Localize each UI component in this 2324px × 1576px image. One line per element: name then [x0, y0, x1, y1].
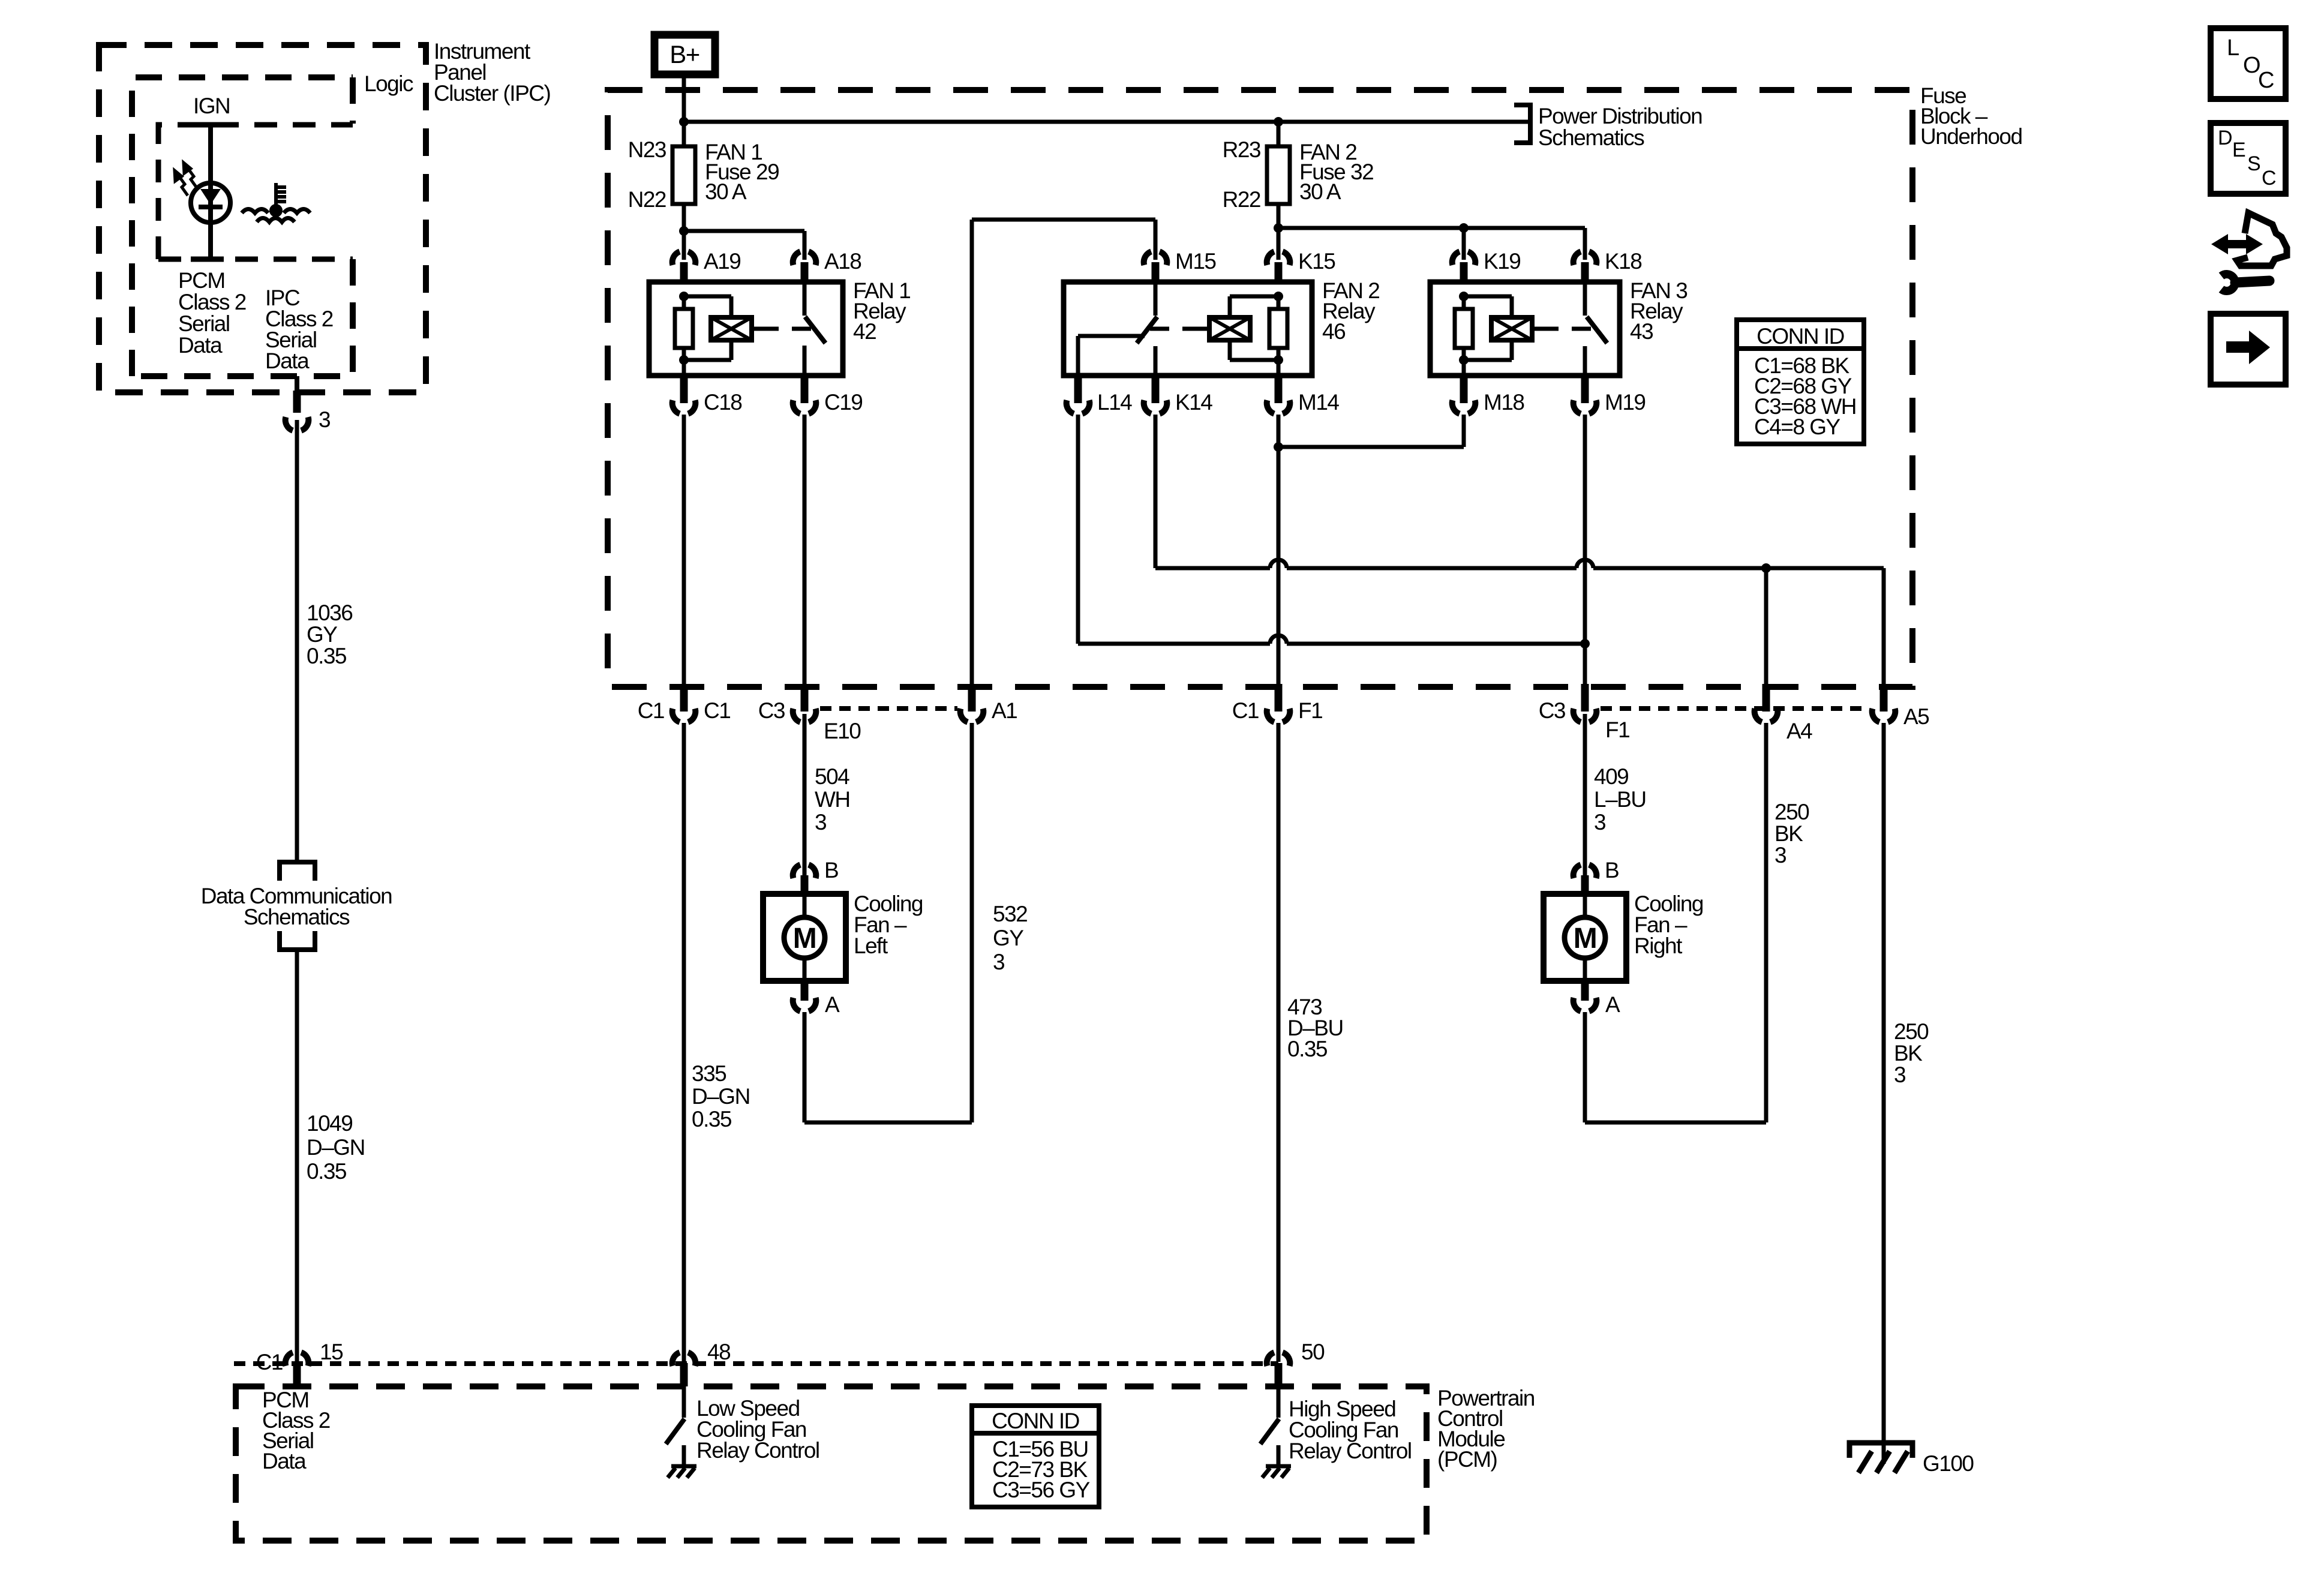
- svg-text:46: 46: [1322, 319, 1345, 344]
- connector pin A4: [1755, 709, 1778, 722]
- svg-text:M: M: [793, 923, 816, 954]
- pin stubs: [680, 262, 688, 282]
- wire 473 D-BU 0.35: [1277, 723, 1281, 1362]
- PCM connector dotted line: [234, 1361, 1278, 1366]
- wire IGN to serial data logic: [208, 125, 213, 259]
- svg-text:Underhood: Underhood: [1920, 124, 2022, 149]
- svg-text:CONN ID: CONN ID: [1756, 324, 1844, 349]
- pin stubs M18 M19: [1460, 376, 1468, 403]
- svg-text:1036: 1036: [307, 601, 352, 625]
- svg-text:Relay Control: Relay Control: [696, 1438, 819, 1463]
- connector stub: [968, 684, 976, 712]
- wire: [682, 122, 686, 146]
- svg-text:Cluster (IPC): Cluster (IPC): [434, 81, 550, 106]
- connector pin 15 (C1): [286, 1352, 309, 1366]
- svg-text:N22: N22: [628, 187, 666, 212]
- connector pin 48: [672, 1352, 696, 1366]
- svg-text:A4: A4: [1786, 719, 1812, 743]
- IPC logic inner dashed box (indicator symbols): [158, 125, 353, 259]
- wire 335 D-GN 0.35: [682, 723, 686, 1362]
- svg-text:BK: BK: [1894, 1041, 1923, 1065]
- wire fan right A to A4: [1583, 1012, 1587, 1122]
- svg-text:M14: M14: [1298, 390, 1339, 415]
- connector stub: [801, 684, 809, 712]
- wire K14 down: [1154, 415, 1158, 568]
- icon: arrow box: [2211, 314, 2286, 385]
- connector pin C3 (F1): [1574, 709, 1597, 722]
- wire K14 to A4/A5 (with hops): [1155, 566, 1270, 571]
- svg-text:335: 335: [692, 1061, 726, 1086]
- svg-text:3: 3: [1894, 1062, 1905, 1087]
- pin stubs: [1460, 262, 1468, 282]
- svg-text:1049: 1049: [307, 1111, 352, 1136]
- junction: [1274, 442, 1283, 452]
- pin stubs L14 K14 M14: [1074, 376, 1082, 403]
- svg-text:0.35: 0.35: [692, 1107, 732, 1131]
- svg-text:0.35: 0.35: [307, 644, 347, 668]
- svg-text:D–GN: D–GN: [307, 1135, 365, 1160]
- svg-text:C3: C3: [758, 698, 785, 723]
- Logic dashed box: [132, 77, 353, 376]
- svg-text:48: 48: [707, 1340, 730, 1364]
- relay 42 resistor: [679, 292, 689, 301]
- connector pin M15: [1144, 251, 1167, 265]
- connector pin A (fan right): [1581, 981, 1589, 1001]
- svg-text:IGN: IGN: [193, 94, 230, 118]
- wire A1 up to M15 line: [970, 220, 974, 684]
- wire M19 down: [1583, 415, 1587, 684]
- connector pin A1: [960, 709, 984, 722]
- svg-text:C3=56 GY: C3=56 GY: [992, 1478, 1090, 1502]
- IPC pin 3 stub: [295, 376, 299, 391]
- svg-text:CONN ID: CONN ID: [992, 1409, 1079, 1433]
- junction: [679, 117, 689, 127]
- Powertrain Control Module (PCM) dashed box: [236, 1386, 1427, 1541]
- Instrument Panel Cluster (IPC) outer dashed box: [99, 45, 426, 392]
- cooling fan left motor: [763, 894, 846, 981]
- icon: wrench: [2221, 274, 2269, 291]
- connector pin B (fan right): [1574, 864, 1597, 878]
- bus wire to Power Distribution: [684, 120, 1528, 124]
- connector pin A (fan left): [801, 981, 809, 1001]
- pin stubs: [1152, 262, 1160, 282]
- svg-text:L: L: [2227, 35, 2239, 61]
- svg-text:Right: Right: [1634, 933, 1683, 958]
- wire A4 branch: [1764, 568, 1768, 684]
- svg-text:C1: C1: [1232, 698, 1259, 723]
- relay 43 coil: [1464, 295, 1512, 299]
- wire to A5: [1882, 568, 1886, 684]
- svg-text:M18: M18: [1484, 390, 1524, 415]
- svg-text:42: 42: [853, 319, 876, 344]
- svg-text:50: 50: [1301, 1340, 1325, 1364]
- svg-text:R23: R23: [1223, 137, 1260, 162]
- svg-text:A5: A5: [1903, 704, 1929, 729]
- svg-text:43: 43: [1630, 319, 1653, 344]
- coolant temperature symbol: [242, 183, 310, 222]
- svg-text:250: 250: [1774, 800, 1809, 824]
- wire M14 down: [1277, 415, 1281, 684]
- CONN ID table (PCM): [972, 1406, 1099, 1507]
- ground G100: [1849, 1443, 1912, 1473]
- svg-text:K19: K19: [1484, 249, 1520, 274]
- connector body dotted line (right): [1601, 706, 1868, 711]
- connector pin 3: [286, 417, 309, 431]
- svg-text:C19: C19: [824, 390, 862, 415]
- svg-text:A1: A1: [992, 698, 1017, 723]
- wire 409 L-BU 3: [1583, 714, 1587, 875]
- connector stub: [1880, 684, 1888, 712]
- svg-text:WH: WH: [815, 787, 850, 812]
- svg-text:Data: Data: [262, 1449, 307, 1473]
- svg-text:3: 3: [1774, 843, 1786, 867]
- junction: [679, 226, 689, 236]
- svg-text:D: D: [2218, 127, 2233, 149]
- svg-text:A19: A19: [704, 249, 740, 274]
- svg-text:B: B: [1605, 858, 1619, 882]
- CONN ID table (fuse block): [1737, 320, 1864, 444]
- pin stubs C18 C19: [680, 376, 688, 403]
- connector pin M14: [1267, 400, 1290, 414]
- pin stubs into PCM: [293, 1363, 301, 1386]
- connector pin C1 (F1): [1267, 709, 1290, 722]
- connector pin K14: [1144, 400, 1167, 414]
- connector pin B (fan left): [793, 864, 816, 878]
- icon: LOC box: [2211, 28, 2286, 99]
- connector pin K19: [1452, 251, 1476, 265]
- coil stub and actuator dashes: [1202, 327, 1209, 331]
- ground (low speed driver): [671, 1464, 696, 1469]
- svg-text:PCM: PCM: [178, 268, 225, 293]
- svg-text:3: 3: [319, 407, 330, 432]
- svg-text:409: 409: [1594, 764, 1628, 789]
- svg-text:15: 15: [320, 1340, 343, 1364]
- svg-text:30 A: 30 A: [705, 179, 747, 204]
- junction: [1761, 563, 1771, 573]
- wire 1036 GY 0.35: [295, 420, 299, 860]
- svg-text:G100: G100: [1923, 1451, 1974, 1476]
- icon: DESC box: [2211, 123, 2286, 194]
- svg-text:A18: A18: [824, 249, 861, 274]
- wire L14 to M19 (with hop): [1078, 642, 1270, 646]
- svg-text:Serial: Serial: [178, 311, 230, 336]
- power node B+: [654, 35, 715, 74]
- svg-text:K18: K18: [1605, 249, 1641, 274]
- junction: [1580, 639, 1590, 649]
- svg-text:K14: K14: [1175, 390, 1212, 415]
- svg-text:L14: L14: [1097, 390, 1132, 415]
- relay 46 coil: [1274, 292, 1283, 301]
- high speed relay control switch: [1277, 1386, 1281, 1418]
- Fuse Block - Underhood dashed box: [608, 90, 1912, 687]
- svg-text:(PCM): (PCM): [1437, 1447, 1497, 1472]
- relay 46 switch: [1154, 282, 1158, 316]
- svg-text:Logic: Logic: [364, 71, 413, 96]
- wire fuse1 to relay: [682, 204, 686, 260]
- svg-text:Left: Left: [854, 933, 888, 958]
- off-page reference: Data Communication Schematics (top bracket): [280, 862, 315, 881]
- cooling fan right motor: [1544, 894, 1626, 981]
- wire branch to A18: [684, 229, 804, 233]
- svg-text:M: M: [1574, 923, 1596, 954]
- svg-text:N23: N23: [628, 137, 666, 162]
- svg-text:GY: GY: [307, 622, 337, 647]
- svg-text:R22: R22: [1223, 187, 1260, 212]
- svg-text:L–BU: L–BU: [1594, 787, 1646, 812]
- connector body dotted line (left): [820, 706, 957, 711]
- wire 1049 D-GN 0.35: [295, 950, 299, 1362]
- icon: double arrow: [2211, 234, 2263, 254]
- svg-text:C1: C1: [704, 698, 730, 723]
- fuse FAN 1 Fuse 29 30A: [672, 146, 695, 204]
- wire C19 down to C3: [803, 415, 807, 684]
- wire: [1277, 122, 1281, 146]
- connector pin C19: [793, 400, 816, 414]
- wire branch to relay 43: [1278, 226, 1585, 230]
- wire fan left A to A1: [803, 1012, 807, 1122]
- relay 42 box: [649, 282, 843, 376]
- svg-text:F1: F1: [1605, 718, 1629, 742]
- IGN feed T-bar: [191, 122, 224, 128]
- connector stub: [1762, 684, 1770, 712]
- off-page reference (bottom bracket): [280, 931, 315, 950]
- svg-text:S: S: [2247, 152, 2261, 175]
- fuse FAN 2 Fuse 32 30A: [1267, 146, 1290, 204]
- relay 43 switch: [1583, 282, 1587, 316]
- svg-text:3: 3: [993, 950, 1004, 974]
- relay 43 box: [1430, 282, 1620, 376]
- svg-text:504: 504: [815, 764, 849, 789]
- ground (high speed driver): [1266, 1464, 1291, 1469]
- svg-text:Power Distribution: Power Distribution: [1538, 104, 1702, 128]
- svg-text:F1: F1: [1298, 698, 1322, 723]
- svg-text:A: A: [1605, 992, 1620, 1017]
- svg-text:532: 532: [993, 902, 1027, 926]
- connector pin C18: [672, 400, 696, 414]
- relay 43 resistor: [1459, 292, 1469, 301]
- LED emission arrows: [175, 163, 197, 196]
- wire C18 down to C1: [682, 415, 686, 684]
- wire 250 BK 3: [1882, 723, 1886, 1464]
- low speed relay control switch: [682, 1386, 686, 1418]
- coil stub and actuator dashes: [752, 327, 759, 331]
- wire B+ feed: [682, 74, 686, 122]
- connector pin K15: [1267, 251, 1290, 265]
- connector stub: [1275, 684, 1283, 712]
- svg-text:C1: C1: [256, 1350, 283, 1374]
- svg-text:30 A: 30 A: [1299, 179, 1341, 204]
- svg-text:Schematics: Schematics: [244, 905, 350, 929]
- svg-text:0.35: 0.35: [307, 1159, 347, 1184]
- svg-text:250: 250: [1894, 1019, 1929, 1044]
- svg-text:C18: C18: [704, 390, 741, 415]
- svg-text:0.35: 0.35: [1287, 1037, 1328, 1061]
- connector stub: [1581, 684, 1589, 712]
- connector pin L14: [1067, 400, 1090, 414]
- svg-text:A: A: [825, 992, 840, 1017]
- svg-text:E: E: [2232, 139, 2246, 161]
- coil stub and actuator dashes: [1532, 327, 1539, 331]
- junction: [1274, 117, 1283, 127]
- svg-text:B+: B+: [669, 40, 699, 68]
- connector pin A18: [793, 251, 816, 265]
- svg-text:M19: M19: [1605, 390, 1645, 415]
- svg-text:C4=8 GY: C4=8 GY: [1754, 415, 1840, 439]
- svg-text:D–GN: D–GN: [692, 1084, 750, 1109]
- wire L14 down: [1076, 415, 1080, 644]
- svg-text:3: 3: [815, 810, 826, 834]
- svg-text:C3: C3: [1539, 698, 1565, 723]
- connector pin C1 (C1): [672, 709, 696, 722]
- svg-text:E10: E10: [824, 719, 861, 743]
- relay 46 box: [1064, 282, 1312, 376]
- connector pin M18: [1452, 400, 1476, 414]
- connector pin K18: [1574, 251, 1597, 265]
- wire A1 to M15: [972, 218, 1155, 222]
- connector pin C3 (E10): [793, 709, 816, 722]
- icon: vehicle front view with wrench: [2237, 213, 2287, 266]
- wire fuse2 to relays: [1277, 204, 1281, 260]
- svg-text:C: C: [2258, 68, 2274, 93]
- svg-text:Data: Data: [178, 333, 223, 358]
- svg-text:BK: BK: [1774, 821, 1803, 846]
- svg-text:B: B: [824, 858, 838, 882]
- svg-text:M15: M15: [1175, 249, 1216, 274]
- svg-text:Relay Control: Relay Control: [1289, 1439, 1412, 1463]
- svg-text:K15: K15: [1298, 249, 1335, 274]
- connector pin A5: [1872, 709, 1896, 722]
- connector pin 50: [1267, 1352, 1290, 1366]
- svg-text:C: C: [2262, 167, 2277, 190]
- bottom T-bar: [191, 257, 224, 262]
- svg-text:Data: Data: [265, 349, 310, 373]
- connector stub: [680, 684, 688, 712]
- relay 42 coil: [684, 295, 731, 299]
- connector pin M19: [1574, 400, 1597, 414]
- junction: [1274, 223, 1283, 233]
- indicator LED (coolant temp lamp): [191, 183, 230, 223]
- relay 46 resistor: [1277, 296, 1281, 309]
- svg-text:3: 3: [1594, 810, 1605, 834]
- wire M14 to M18: [1278, 445, 1464, 449]
- wire 504 WH 3: [803, 714, 807, 875]
- off-page reference: Power Distribution Schematics bracket: [1514, 105, 1530, 143]
- svg-text:Class 2: Class 2: [178, 290, 246, 314]
- relay 42 switch: [803, 282, 807, 316]
- svg-text:C1: C1: [638, 698, 664, 723]
- svg-text:Schematics: Schematics: [1538, 125, 1644, 150]
- svg-text:GY: GY: [993, 926, 1023, 950]
- connector pin A19: [672, 251, 696, 265]
